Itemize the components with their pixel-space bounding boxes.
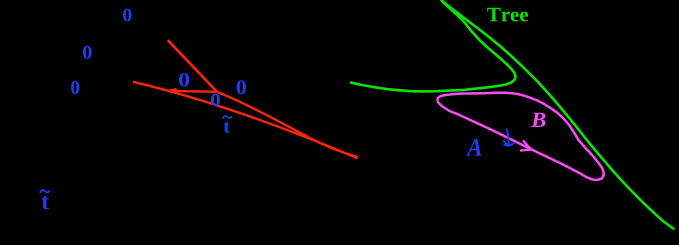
wire: red long gentle curve L1 (133, 82, 358, 159)
label 0 upper-left (83, 46, 92, 59)
wire: red steep ray (168, 40, 217, 92)
label B (531, 113, 546, 127)
wire: red horizontal edge of small triangle (169, 90, 218, 93)
label Tree (487, 8, 528, 22)
label 0 above triangle (179, 73, 189, 87)
arrowhead on horizontal edge pointing left (166, 88, 177, 94)
label 0 top (123, 9, 131, 22)
label t-tilde bottom left (42, 196, 49, 210)
magenta loop (cycle) (437, 93, 603, 180)
label 0 right of junction (237, 80, 246, 94)
wire: red curve L2 from junction (217, 92, 358, 157)
label 0 below junction (211, 94, 220, 106)
label A (466, 139, 481, 156)
label t-tilde near curve (224, 122, 231, 133)
magenta arrowhead on loop (521, 141, 531, 150)
green curve: steep branch (442, 1, 674, 229)
label 0 lower-left (71, 81, 79, 94)
blue small arrow (507, 129, 509, 145)
green curve: hook branch with horizontal tail (351, 1, 516, 92)
